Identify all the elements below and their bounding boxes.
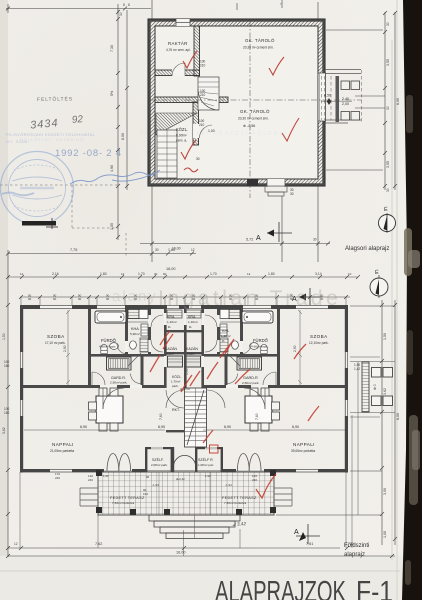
svg-text:3,62: 3,62: [383, 388, 387, 395]
svg-text:lb.: lb.: [222, 339, 225, 343]
svg-text:8,00: 8,00: [121, 133, 125, 140]
svg-text:park.: park.: [172, 384, 179, 388]
svg-text:10: 10: [348, 272, 352, 276]
svg-text:12: 12: [121, 272, 125, 276]
svg-text:lb.: lb.: [189, 325, 192, 329]
svg-text:8,00: 8,00: [396, 413, 400, 420]
svg-text:GARD.R: GARD.R: [243, 376, 258, 380]
svg-text:5%: 5%: [110, 90, 114, 96]
svg-text:2,00: 2,00: [342, 102, 349, 106]
svg-text:NAPPALI: NAPPALI: [293, 442, 315, 447]
svg-text:210: 210: [200, 93, 206, 97]
svg-text:20,30 m² cement sim.: 20,30 m² cement sim.: [238, 117, 269, 121]
svg-text:12: 12: [191, 248, 195, 252]
svg-text:90: 90: [106, 297, 110, 301]
svg-text:1,50: 1,50: [2, 333, 6, 340]
svg-text:1,70: 1,70: [138, 272, 145, 276]
svg-text:30: 30: [386, 22, 390, 26]
svg-text:90: 90: [78, 297, 82, 301]
svg-text:7,30: 7,30: [110, 45, 114, 52]
svg-text:6,90: 6,90: [292, 425, 299, 429]
svg-text:4,90: 4,90: [110, 165, 114, 172]
svg-text:FEDETT TERASZ: FEDETT TERASZ: [110, 496, 145, 500]
svg-text:A: A: [256, 235, 261, 242]
svg-text:1,94: 1,94: [103, 474, 109, 478]
svg-text:17,10 m² park.: 17,10 m² park.: [45, 341, 66, 345]
svg-text:Földszinti: Földszinti: [344, 543, 369, 549]
svg-text:SZÉLF R: SZÉLF R: [198, 457, 213, 462]
svg-text:7,61: 7,61: [306, 542, 313, 546]
svg-text:1,10m²: 1,10m²: [167, 320, 177, 324]
svg-text:6,90: 6,90: [158, 425, 165, 429]
svg-text:30: 30: [196, 157, 200, 161]
svg-text:4,60m² lapb.: 4,60m² lapb.: [99, 345, 116, 349]
svg-text:F-1: F-1: [356, 576, 393, 600]
svg-text:3,62: 3,62: [2, 427, 6, 434]
svg-text:21,05m² parketta: 21,05m² parketta: [50, 449, 74, 453]
svg-text:7,84m² burkolva: 7,84m² burkolva: [224, 501, 246, 505]
svg-text:4,56: 4,56: [324, 94, 331, 98]
svg-text:1,10m²: 1,10m²: [188, 320, 198, 324]
svg-text:20,30 m² cement sim.: 20,30 m² cement sim.: [243, 46, 274, 50]
svg-text:3,55: 3,55: [386, 59, 390, 66]
svg-text:SZÉLF.: SZÉLF.: [152, 457, 164, 462]
svg-text:6,90: 6,90: [80, 425, 87, 429]
svg-text:1,50: 1,50: [383, 333, 387, 340]
svg-text:KRA: KRA: [167, 315, 175, 319]
svg-text:3,55: 3,55: [386, 161, 390, 168]
svg-text:7,60: 7,60: [159, 413, 163, 420]
svg-text:GARD.R.: GARD.R.: [111, 376, 126, 380]
svg-text:1,80: 1,80: [100, 272, 107, 276]
svg-text:8: 8: [123, 3, 125, 7]
svg-text:162: 162: [143, 492, 148, 496]
svg-text:3,14: 3,14: [315, 272, 322, 276]
svg-text:7,62: 7,62: [95, 542, 102, 546]
svg-text:3434: 3434: [30, 117, 59, 131]
svg-text:1,70: 1,70: [210, 272, 217, 276]
svg-text:MELLÉKLET: HATÁRIDŐ:: MELLÉKLET: HATÁRIDŐ:: [20, 137, 86, 142]
svg-text:RKT.: RKT.: [172, 408, 180, 412]
svg-text:KRA: KRA: [188, 315, 196, 319]
svg-text:90: 90: [28, 297, 32, 301]
svg-text:1,42: 1,42: [354, 367, 360, 371]
svg-text:160: 160: [4, 364, 10, 368]
svg-text:4,0m²: 4,0m²: [166, 352, 174, 356]
svg-text:FÜRDŐ: FÜRDŐ: [253, 338, 269, 343]
svg-text:1,00: 1,00: [185, 368, 189, 375]
svg-text:16,00: 16,00: [176, 551, 186, 555]
svg-text:2,90m² park.: 2,90m² park.: [110, 381, 128, 385]
svg-text:ALAPRAJZOK: ALAPRAJZOK: [215, 576, 346, 600]
svg-text:16,00: 16,00: [172, 247, 181, 251]
svg-text:alany: alany: [112, 288, 158, 305]
svg-text:PILISVÖRÖSVÁRI KÖRZETI FÖLDHIV: PILISVÖRÖSVÁRI KÖRZETI FÖLDHIV: [140, 130, 288, 137]
svg-text:7,75: 7,75: [70, 248, 77, 252]
svg-text:2,90: 2,90: [63, 345, 67, 352]
svg-text:210: 210: [200, 64, 206, 68]
svg-text:30: 30: [119, 12, 123, 16]
svg-text:KHA: KHA: [131, 327, 139, 331]
svg-text:12: 12: [14, 542, 18, 546]
svg-text:FÜRDŐ: FÜRDŐ: [101, 338, 117, 343]
svg-text:1,05: 1,05: [110, 223, 114, 230]
svg-text:2,90: 2,90: [293, 345, 297, 352]
svg-text:210: 210: [199, 123, 205, 127]
svg-text:7,60: 7,60: [255, 413, 259, 420]
svg-text:12: 12: [247, 272, 251, 276]
svg-text:2,40: 2,40: [342, 97, 349, 101]
svg-text:KHL: KHL: [222, 329, 229, 333]
svg-text:240: 240: [88, 478, 93, 482]
svg-text:5,72: 5,72: [246, 238, 253, 242]
svg-text:FELTÖLTÉS: FELTÖLTÉS: [37, 95, 73, 103]
svg-text:GK. TÁROLÓ: GK. TÁROLÓ: [240, 109, 270, 114]
svg-text:⌐: ⌐: [280, 2, 282, 6]
svg-text:30: 30: [290, 192, 294, 196]
svg-text:lb.: lb.: [168, 325, 171, 329]
svg-text:1,00: 1,00: [383, 531, 387, 538]
svg-text:SZOBA: SZOBA: [310, 334, 328, 339]
svg-text:É: É: [384, 206, 388, 213]
svg-text:12: 12: [20, 272, 24, 276]
svg-text:90: 90: [53, 297, 57, 301]
svg-text:3,00: 3,00: [383, 488, 387, 495]
svg-text:30: 30: [386, 106, 390, 110]
svg-text:KAZÁN: KAZÁN: [186, 347, 198, 351]
svg-text:⊕ 0: ⊕ 0: [373, 384, 377, 390]
svg-text:RAKTÁR: RAKTÁR: [168, 41, 188, 46]
svg-text:1,94: 1,94: [205, 474, 211, 478]
svg-text:4,60m² lapb.: 4,60m² lapb.: [251, 345, 268, 349]
svg-text:-1,94: -1,94: [152, 483, 159, 487]
svg-text:2,08m² park.: 2,08m² park.: [151, 463, 168, 467]
svg-text:4,76 m² cem. apl.: 4,76 m² cem. apl.: [166, 48, 191, 52]
svg-text:16,00: 16,00: [166, 267, 176, 271]
svg-text:8,00: 8,00: [396, 98, 400, 105]
svg-text:92: 92: [71, 114, 83, 126]
svg-text:1992 -08- 2 4: 1992 -08- 2 4: [55, 148, 122, 159]
svg-text:⊕ -2,56: ⊕ -2,56: [243, 124, 255, 128]
svg-text:5,90m²: 5,90m²: [130, 332, 140, 336]
svg-text:NAPPALI: NAPPALI: [52, 442, 74, 447]
svg-text:⊕-0,42: ⊕-0,42: [176, 477, 185, 481]
svg-text:30: 30: [155, 248, 159, 252]
svg-text:240: 240: [55, 476, 60, 480]
svg-text:KAZÁN: KAZÁN: [165, 347, 177, 351]
svg-text:-1,94: -1,94: [225, 483, 232, 487]
svg-text:39,06m² porketta: 39,06m² porketta: [291, 449, 315, 453]
svg-text:⊿ 3,42: ⊿ 3,42: [232, 521, 247, 527]
svg-text:Alagsori alaprajz: Alagsori alaprajz: [345, 246, 389, 252]
svg-text:alaprajz: alaprajz: [344, 552, 365, 558]
svg-text:240: 240: [252, 478, 257, 482]
svg-text:7,84m² burkolva: 7,84m² burkolva: [112, 501, 134, 505]
svg-text:1,90m²: 1,90m²: [221, 334, 231, 338]
svg-text:SZOBA: SZOBA: [47, 334, 65, 339]
svg-text:6,90: 6,90: [224, 425, 231, 429]
svg-text:90: 90: [163, 272, 167, 276]
svg-text:KÖZL.: KÖZL.: [172, 375, 182, 379]
svg-text:12,10m² park.: 12,10m² park.: [309, 341, 329, 345]
svg-text:2,50m² park.: 2,50m² park.: [242, 381, 260, 385]
svg-text:É: É: [375, 269, 379, 276]
svg-text:8: 8: [128, 3, 130, 7]
svg-text:A: A: [294, 529, 299, 536]
svg-text:FEDETT TERASZ: FEDETT TERASZ: [222, 496, 257, 500]
svg-text:2,16: 2,16: [52, 272, 59, 276]
svg-text:150: 150: [4, 411, 10, 415]
svg-text:cem. a.: cem. a.: [176, 139, 187, 143]
svg-text:1,08m² port.: 1,08m² port.: [198, 463, 214, 467]
svg-text:30: 30: [313, 238, 317, 242]
svg-text:1,70m²: 1,70m²: [171, 380, 180, 384]
svg-text:1,80: 1,80: [268, 272, 275, 276]
svg-text:30: 30: [386, 188, 390, 192]
svg-text:30: 30: [154, 272, 158, 276]
svg-text:90: 90: [146, 475, 150, 479]
svg-text:Ingatlan Trade: Ingatlan Trade: [158, 287, 341, 310]
svg-text:GK. TÁROLÓ: GK. TÁROLÓ: [245, 38, 275, 43]
svg-text:1,0m²: 1,0m²: [187, 352, 195, 356]
